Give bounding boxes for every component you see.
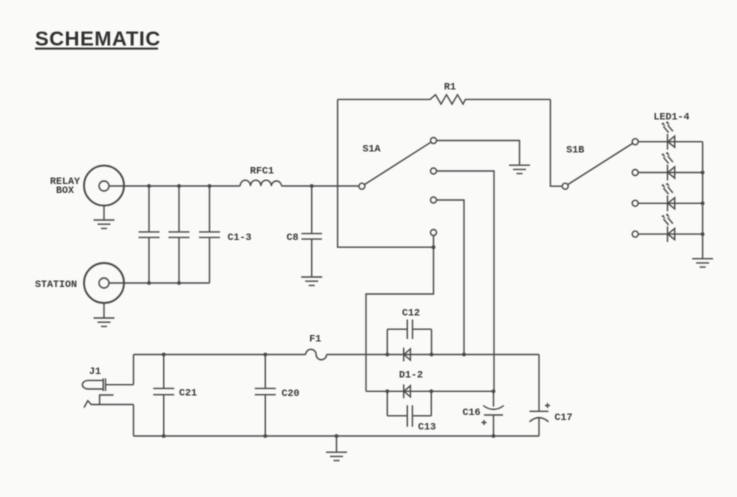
svg-text:C16: C16 [462, 408, 480, 419]
capacitor C3 (of C1-3) [199, 186, 252, 283]
svg-text:S1B: S1B [566, 146, 584, 157]
LED1 [632, 121, 702, 150]
inductor RFC1 [240, 167, 282, 187]
wire S1A contact1 to ground [437, 141, 520, 165]
ground (station) [94, 303, 115, 327]
wire LED common rail [701, 142, 705, 258]
capacitor C16 [462, 389, 503, 438]
LED4 [632, 213, 702, 242]
svg-text:STATION: STATION [35, 280, 77, 291]
wire bottom rail [134, 435, 540, 437]
ground (relay box) [94, 206, 115, 229]
wire S1A contact4 path [366, 236, 435, 392]
capacitor C17 [530, 355, 573, 437]
wire top rail [134, 354, 540, 356]
resistor R1 [338, 82, 551, 104]
svg-text:SCHEMATIC: SCHEMATIC [35, 28, 161, 51]
fuse F1 [306, 335, 327, 360]
svg-text:C17: C17 [555, 413, 573, 424]
capacitor C12 [385, 309, 433, 357]
svg-text:C21: C21 [179, 389, 197, 400]
LED2 [632, 152, 702, 181]
svg-text:C1-3: C1-3 [228, 233, 252, 244]
ground (bottom rail) [326, 434, 347, 461]
capacitor C2 (of C1-3) [169, 186, 190, 283]
wire D2 line [366, 390, 494, 392]
connector STATION [35, 263, 124, 303]
ground (S1A contact1) [509, 165, 530, 173]
wire S1A contact2 drop [437, 171, 495, 391]
title SCHEMATIC [35, 28, 161, 51]
junction dots C1-3 [147, 184, 211, 285]
ground (LED rail) [692, 259, 713, 267]
connector RELAY BOX [50, 166, 124, 206]
connector J1 [82, 355, 133, 437]
capacitor C20 [255, 353, 300, 438]
junction dot contact3 on main rail [462, 353, 466, 357]
capacitor C8 [286, 184, 322, 276]
svg-text:BOX: BOX [56, 186, 74, 197]
wire main RF line [109, 185, 360, 187]
capacitor C1 (of C1-3) [139, 186, 160, 283]
svg-text:F1: F1 [309, 335, 321, 346]
svg-text:C13: C13 [418, 423, 436, 434]
switch S1B [562, 143, 632, 189]
svg-text:S1A: S1A [362, 145, 380, 156]
svg-text:LED1-4: LED1-4 [653, 113, 689, 124]
LED3 [632, 183, 702, 212]
svg-text:RFC1: RFC1 [250, 167, 274, 178]
diode D1 [399, 348, 423, 382]
svg-text:D1-2: D1-2 [399, 370, 423, 381]
capacitor C21 [153, 353, 197, 438]
ground (C8) [301, 277, 322, 285]
diode D2 [404, 384, 411, 398]
svg-text:C12: C12 [402, 309, 420, 320]
switch S1A [359, 138, 437, 236]
svg-text:C8: C8 [286, 233, 298, 244]
capacitor C13 [385, 389, 436, 433]
svg-text:C20: C20 [282, 389, 300, 400]
svg-text:J1: J1 [89, 367, 101, 378]
wire station line [109, 282, 210, 284]
wire R1 left leg [338, 99, 434, 247]
wire S1B feed [550, 99, 562, 186]
wire S1A contact3 drop [437, 200, 465, 355]
svg-text:R1: R1 [444, 82, 456, 93]
